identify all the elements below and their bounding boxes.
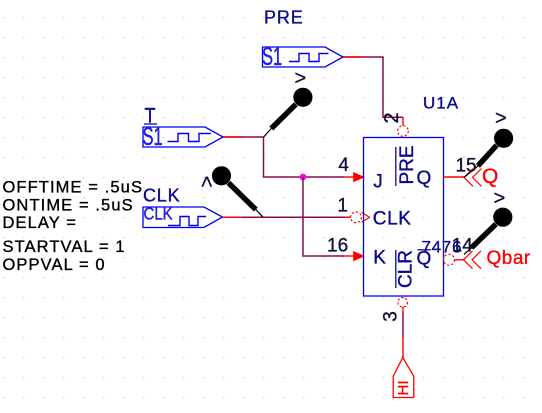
pin 2 open-pin circle	[398, 126, 409, 137]
svg-text:J: J	[373, 172, 383, 193]
pin number 15	[455, 156, 476, 177]
svg-text:>: >	[495, 107, 507, 129]
pin name CLK	[373, 209, 412, 230]
pin arrow J	[353, 172, 365, 182]
wire T net	[223, 137, 354, 177]
svg-text:CLR: CLR	[396, 250, 417, 288]
parameter text OFFTIME	[3, 178, 144, 196]
pin CLK clock wedge	[362, 212, 370, 222]
reference U1A	[423, 94, 459, 113]
pin name Q (top)	[417, 168, 432, 189]
stimulus CLK (DigClock)	[143, 203, 223, 227]
pin number 4	[338, 155, 349, 176]
svg-text:S1: S1	[262, 44, 282, 71]
svg-text:>: >	[494, 188, 506, 210]
probe marker 3 (Q net)	[464, 129, 513, 178]
pin name J	[373, 172, 383, 193]
svg-text:16: 16	[327, 235, 348, 256]
pin 3 open-pin circle	[398, 298, 408, 308]
svg-text:15: 15	[455, 156, 476, 177]
svg-text:K: K	[373, 248, 386, 269]
svg-text:CLK: CLK	[144, 203, 173, 224]
pin number 16	[327, 235, 348, 256]
svg-text:1: 1	[337, 195, 348, 216]
Q output chevrons	[464, 169, 482, 187]
wire CLK net	[223, 216, 351, 218]
net label CLK	[143, 186, 180, 206]
parameter text STARTVAL	[3, 238, 126, 256]
probe 1 label >	[295, 68, 307, 90]
parameter text DELAY	[3, 214, 78, 232]
parameter text ONTIME	[3, 197, 134, 215]
svg-text:Q: Q	[482, 165, 498, 188]
svg-text:S1: S1	[143, 124, 163, 151]
parameter text OPPVAL	[3, 256, 106, 274]
probe 4 label >	[494, 188, 506, 210]
digital HI symbol	[393, 358, 414, 398]
svg-text:OPPVAL = 0: OPPVAL = 0	[3, 256, 106, 274]
value 7476	[422, 237, 463, 256]
pin arrow K	[353, 251, 365, 261]
net label T	[144, 104, 157, 128]
svg-text:PRE: PRE	[264, 8, 304, 28]
pin number 2	[381, 112, 403, 123]
svg-text:CLK: CLK	[373, 209, 412, 230]
svg-text:4: 4	[338, 155, 349, 176]
wire PRE net	[343, 57, 403, 126]
pin name PRE (rotated, with overbar)	[396, 145, 418, 186]
svg-text:STARTVAL = 1: STARTVAL = 1	[3, 238, 126, 256]
svg-text:HI: HI	[395, 381, 412, 396]
probe 3 label >	[495, 107, 507, 129]
Qbar output chevrons	[464, 251, 482, 269]
svg-text:>: >	[196, 176, 218, 188]
stimulus S1 (T)	[143, 124, 224, 151]
svg-text:Q: Q	[417, 249, 432, 270]
pin name Qbar (bottom, overbar)	[417, 249, 432, 270]
svg-text:ONTIME = .5uS: ONTIME = .5uS	[3, 197, 134, 215]
net label Q	[482, 165, 498, 188]
pin 14 open-pin circle	[444, 254, 455, 265]
net label PRE	[264, 8, 304, 28]
pin name CLR (rotated, with overbar)	[396, 250, 417, 288]
svg-text:OFFTIME = .5uS: OFFTIME = .5uS	[3, 178, 144, 196]
svg-text:DELAY =: DELAY =	[3, 214, 78, 232]
pin CLK open-pin circle	[351, 212, 362, 223]
probe marker 4 (Qbar net)	[464, 208, 512, 255]
wire K branch	[303, 177, 354, 256]
net label Qbar	[487, 248, 531, 269]
wire Qbar stub	[455, 259, 464, 261]
svg-text:2: 2	[381, 112, 403, 123]
probe marker 1 (T net)	[264, 88, 313, 137]
wire CLR net	[402, 307, 404, 358]
pin number 3	[380, 311, 401, 322]
flip-flop U1A box	[364, 138, 444, 297]
svg-text:3: 3	[380, 311, 401, 322]
probe marker 2 (CLK net)	[212, 166, 263, 217]
junction node (T to K branch)	[300, 174, 307, 181]
svg-text:>: >	[295, 68, 307, 90]
svg-text:Q: Q	[417, 168, 432, 189]
pin name K	[373, 248, 386, 269]
pin number 1	[337, 195, 348, 216]
wire Q output	[444, 176, 465, 178]
svg-text:Qbar: Qbar	[487, 248, 531, 269]
svg-text:PRE: PRE	[397, 145, 418, 184]
probe 2 label ^	[196, 176, 218, 188]
pin number 14	[452, 235, 474, 256]
svg-text:U1A: U1A	[423, 94, 459, 113]
stimulus S1 (PRE)	[262, 44, 343, 71]
